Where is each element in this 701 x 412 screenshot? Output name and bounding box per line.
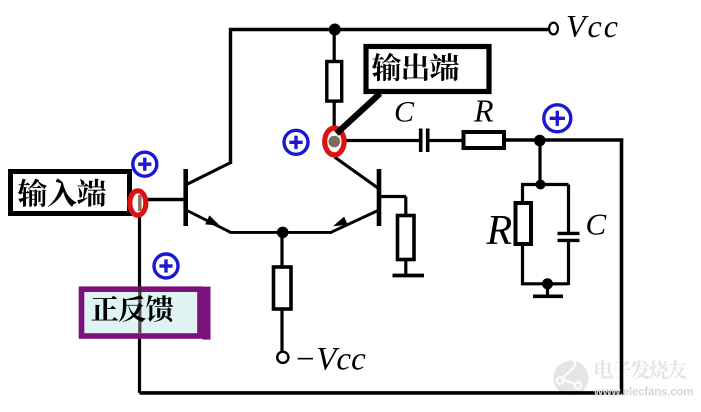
wire Q1 base lead [132, 198, 184, 201]
wire tank right branch upper [567, 185, 570, 233]
wire tail down [280, 232, 283, 268]
plus marker near feedback [154, 254, 178, 278]
wire right edge vertical [620, 139, 624, 395]
wire Q2 collector diagonal [335, 157, 381, 190]
wire tank bottom [521, 282, 569, 285]
callout box positive feedback [82, 289, 201, 336]
wire Q2 base lead [380, 195, 406, 198]
resistor tail (vertical) [274, 267, 292, 309]
wire junction to collector resistor [333, 30, 336, 63]
wire resistor to output node [333, 101, 336, 146]
svg-text:R: R [473, 93, 494, 129]
transistor Q1 base bar [183, 169, 188, 226]
svg-text:−Vcc: −Vcc [294, 342, 366, 378]
Q1 emitter arrowhead [205, 215, 220, 225]
wire output node to capacitor C [335, 139, 420, 142]
node feedback junction [534, 135, 546, 147]
plus marker near output node [284, 130, 308, 154]
watermark text elecfans [595, 360, 687, 379]
label output terminal text [372, 53, 459, 82]
ground bar under tank [533, 294, 563, 298]
wire tank right branch lower [567, 241, 570, 285]
transistor Q2 base bar [377, 169, 382, 226]
wire left feedback vertical [138, 203, 141, 393]
pointer line from output box to node [337, 94, 381, 134]
callout box positive feedback right border (thick) [203, 287, 211, 340]
svg-text:Vcc: Vcc [566, 8, 620, 44]
resistor R series (horizontal) [464, 132, 505, 148]
wire Q2 base down [404, 197, 407, 217]
wire tail to -Vcc [280, 309, 283, 352]
wire tank left branch lower [521, 246, 524, 285]
wire Q2 emitter diagonal [331, 211, 378, 233]
wire tank top [521, 183, 569, 186]
wire shared emitter horizontal [230, 231, 333, 234]
node tank bottom junction [542, 278, 553, 289]
wire bottom feedback rail [140, 391, 624, 395]
resistor collector load (vertical) [327, 62, 342, 102]
resistor R tank (vertical) [516, 203, 532, 244]
wire left collector diagonal [187, 163, 231, 185]
plus marker near feedback junction [544, 105, 571, 132]
svg-text:C: C [586, 207, 607, 242]
wire R to right corner [506, 138, 624, 141]
resistor Q2 base (vertical) [398, 216, 415, 260]
highlight ellipse input node (red) [130, 191, 146, 215]
node top rail junction [329, 24, 341, 36]
label input terminal text [18, 178, 106, 207]
svg-text:www.elecfans.com: www.elecfans.com [593, 387, 693, 399]
callout box input terminal [11, 172, 130, 214]
wire tank left branch upper [521, 185, 524, 203]
terminal -Vcc open circle [277, 352, 288, 363]
wire left collector vertical [229, 28, 232, 164]
wire Q1 emitter diagonal [187, 211, 231, 233]
highlight ellipse output node (red) [325, 128, 344, 155]
Q2 emitter arrowhead [333, 217, 348, 227]
terminal Vcc open circle [549, 23, 558, 35]
plus marker near input [133, 152, 157, 176]
capacitor C tank plates [558, 232, 580, 235]
svg-text:C: C [394, 96, 415, 129]
wire junction down to tank [538, 140, 541, 185]
wire top rail to Vcc [229, 28, 549, 31]
label positive feedback text [91, 295, 173, 322]
node tank top junction [536, 180, 546, 190]
ground bar under Q2 base resistor [393, 274, 425, 278]
wire showing through feedback box [138, 293, 141, 334]
callout box output terminal [366, 47, 489, 92]
capacitor C coupling plates [419, 129, 423, 153]
node shared emitter junction [277, 227, 289, 239]
wire resistor to ground stub [404, 260, 407, 275]
wire ground stub [546, 284, 549, 295]
wire capacitor to resistor R [429, 139, 462, 142]
svg-text:R: R [486, 208, 513, 254]
watermark logo disc [554, 361, 589, 396]
